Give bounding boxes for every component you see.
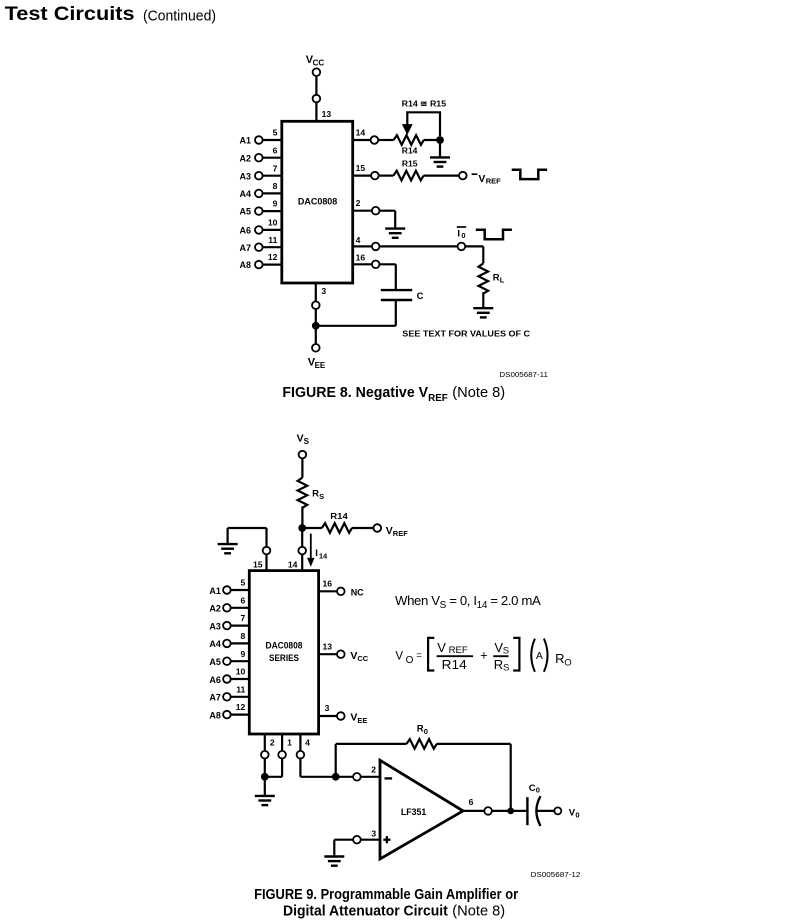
wire <box>263 229 282 231</box>
svg-text:9: 9 <box>241 649 246 659</box>
svg-text:(Note 8): (Note 8) <box>452 904 505 920</box>
junction output node <box>507 808 514 815</box>
svg-text:(Note 8): (Note 8) <box>452 385 505 401</box>
svg-text:6: 6 <box>273 145 278 155</box>
svg-text:15: 15 <box>253 560 263 570</box>
svg-text:V: V <box>437 640 446 655</box>
wire pin 3 <box>315 283 317 301</box>
wire <box>265 528 267 547</box>
resistor RL <box>479 263 489 293</box>
svg-text:V: V <box>350 650 357 662</box>
terminal A5 <box>223 657 231 665</box>
svg-text:6: 6 <box>469 797 474 807</box>
wire <box>395 300 397 326</box>
wire <box>299 758 301 776</box>
node -VREF label <box>472 173 478 175</box>
svg-text:0: 0 <box>575 810 579 819</box>
terminal op-amp pin 3 <box>353 836 361 844</box>
svg-text:A1: A1 <box>239 136 251 146</box>
node VEE label <box>308 357 326 371</box>
svg-text:C: C <box>417 291 424 302</box>
svg-text:4: 4 <box>356 235 361 245</box>
svg-text:12: 12 <box>236 702 246 712</box>
wire <box>264 777 266 796</box>
ground <box>430 157 450 166</box>
resistor R0 <box>407 739 437 749</box>
terminal op-amp pin 2 <box>353 773 361 781</box>
svg-text:SERIES: SERIES <box>269 653 299 663</box>
terminal A2 <box>223 604 231 612</box>
svg-text:CC: CC <box>313 59 325 68</box>
resistor R15 <box>393 171 423 181</box>
terminal VCC <box>313 68 321 76</box>
svg-text:V: V <box>386 525 393 537</box>
wire <box>263 175 282 177</box>
svg-text:NC: NC <box>351 587 364 597</box>
capacitor C <box>381 290 412 300</box>
terminal A3 <box>255 172 263 180</box>
junction <box>436 136 444 144</box>
svg-text:=: = <box>416 650 422 661</box>
wire <box>424 175 460 177</box>
wire <box>263 192 282 194</box>
svg-text:5: 5 <box>241 578 246 588</box>
svg-text:DS005687-11: DS005687-11 <box>499 370 548 379</box>
terminal pin 16 <box>372 261 380 269</box>
svg-text:EE: EE <box>357 716 367 725</box>
svg-text:R: R <box>493 272 500 283</box>
svg-text:FIGURE 8. Negative V: FIGURE 8. Negative V <box>282 385 428 401</box>
wire <box>333 840 335 856</box>
wire <box>265 776 282 778</box>
wire <box>352 527 374 529</box>
svg-text:S: S <box>503 646 509 657</box>
svg-text:A1: A1 <box>209 586 221 596</box>
wire <box>315 76 317 95</box>
wire <box>336 776 354 778</box>
op-amp U3 LF351 <box>380 760 463 859</box>
svg-text:16: 16 <box>356 252 366 262</box>
wire pin 1 <box>281 734 283 751</box>
svg-text:R14: R14 <box>330 511 348 521</box>
terminal pin 6 <box>484 807 492 815</box>
wire <box>281 758 283 776</box>
svg-text:A2: A2 <box>209 604 221 614</box>
svg-text:8: 8 <box>241 631 246 641</box>
terminal pin 4 <box>297 751 305 759</box>
svg-text:S: S <box>304 437 310 446</box>
terminal A4 <box>255 190 263 198</box>
svg-text:8: 8 <box>273 181 278 191</box>
svg-text:14: 14 <box>319 552 328 561</box>
terminal pin 2 <box>261 751 269 759</box>
wire <box>380 245 458 247</box>
svg-text:2: 2 <box>371 764 376 774</box>
wire <box>482 246 484 263</box>
terminal pin 15 <box>263 547 271 555</box>
svg-text:0: 0 <box>536 786 540 795</box>
wire <box>395 264 397 290</box>
svg-text:V: V <box>297 433 304 445</box>
junction node 14 <box>298 524 306 532</box>
svg-text:9: 9 <box>273 199 278 209</box>
terminal A7 <box>223 693 231 701</box>
svg-text:+: + <box>480 648 487 662</box>
terminal pin 3 <box>337 712 345 720</box>
wire <box>301 506 303 528</box>
svg-text:A8: A8 <box>209 710 221 720</box>
svg-text:S: S <box>503 663 509 674</box>
svg-text:2: 2 <box>270 738 275 748</box>
wire <box>380 210 396 212</box>
ground <box>385 229 405 238</box>
svg-text:DAC0808: DAC0808 <box>298 196 337 207</box>
wiper arm of R14 <box>407 112 440 136</box>
wire <box>315 309 317 326</box>
resistor R14 <box>322 523 352 533</box>
wire <box>300 776 335 778</box>
svg-text:2: 2 <box>356 198 361 208</box>
wire <box>319 653 338 655</box>
svg-text:Test Circuits: Test Circuits <box>5 3 135 25</box>
junction <box>261 773 269 781</box>
caption Figure 8 <box>282 385 505 404</box>
wire <box>265 554 267 570</box>
svg-text:REF: REF <box>428 392 448 404</box>
waveform at I0 (negative pulse) <box>476 230 512 239</box>
terminal V0 <box>554 807 561 814</box>
equation: VO = [VREF/R14 + VS/RS](A)RO <box>395 638 571 674</box>
svg-text:16: 16 <box>323 579 333 589</box>
svg-text:14: 14 <box>356 127 366 137</box>
wire <box>424 139 440 141</box>
terminal A2 <box>255 154 263 162</box>
svg-text:R: R <box>312 489 319 500</box>
terminal A5 <box>255 207 263 215</box>
wire <box>319 715 338 717</box>
wire <box>380 263 396 265</box>
svg-text:REF: REF <box>486 177 501 186</box>
wire <box>231 607 250 609</box>
wire <box>361 776 380 778</box>
svg-text:3: 3 <box>371 828 376 838</box>
ground <box>255 796 275 805</box>
terminal pin 16 <box>337 588 345 596</box>
wire <box>316 325 396 327</box>
ground <box>324 857 344 866</box>
wire <box>301 554 303 570</box>
IC U1 DAC0808 <box>282 121 353 283</box>
wire <box>231 696 250 698</box>
terminal pin 13 <box>337 650 345 658</box>
svg-text:A8: A8 <box>239 260 251 270</box>
node VS label <box>297 433 310 446</box>
wire <box>263 139 282 141</box>
svg-text:R: R <box>555 651 564 666</box>
wire <box>437 743 511 745</box>
svg-text:A4: A4 <box>239 189 251 199</box>
terminal A6 <box>255 226 263 234</box>
svg-text:REF: REF <box>393 529 408 538</box>
junction (summing node) <box>332 773 340 781</box>
wire <box>319 590 338 592</box>
svg-text:O: O <box>564 657 571 668</box>
wire <box>336 743 407 745</box>
svg-text:DS005687-12: DS005687-12 <box>531 870 581 879</box>
wire <box>227 528 229 544</box>
svg-text:A5: A5 <box>239 207 251 217</box>
wire <box>263 264 282 266</box>
caption Figure 9 line 2 <box>283 904 505 920</box>
terminal pin 14 <box>298 547 306 555</box>
svg-text:A5: A5 <box>209 657 221 667</box>
wire <box>378 139 393 141</box>
svg-text:11: 11 <box>236 684 245 694</box>
label RS <box>312 489 324 501</box>
terminal pin 2 <box>372 207 380 215</box>
wire <box>353 139 371 141</box>
label R0 <box>417 724 428 736</box>
wire <box>231 660 250 662</box>
svg-text:A4: A4 <box>209 639 221 649</box>
svg-text:FIGURE 9. Programmable Gain Am: FIGURE 9. Programmable Gain Amplifier or <box>254 887 518 903</box>
terminal pin 14 <box>371 136 379 144</box>
wire <box>537 810 555 812</box>
terminal A4 <box>223 640 231 648</box>
svg-text:S: S <box>319 492 324 501</box>
svg-text:A2: A2 <box>239 153 251 163</box>
wire <box>353 210 372 212</box>
label I14 <box>315 548 328 561</box>
svg-text:10: 10 <box>268 218 278 228</box>
svg-text:O: O <box>406 655 414 666</box>
svg-text:5: 5 <box>273 128 278 138</box>
node VCC label <box>350 650 368 663</box>
ground <box>218 544 238 553</box>
svg-text:12: 12 <box>268 252 278 262</box>
svg-text:A7: A7 <box>209 693 221 703</box>
wire <box>315 102 317 121</box>
svg-text:R: R <box>494 657 503 672</box>
wire <box>231 678 250 680</box>
wire <box>231 624 250 626</box>
wire <box>465 245 483 247</box>
svg-text:I: I <box>457 229 460 240</box>
label RL <box>493 272 505 284</box>
wire <box>492 810 511 812</box>
svg-text:11: 11 <box>268 235 277 245</box>
wire <box>439 140 441 157</box>
svg-text:DAC0808: DAC0808 <box>266 640 303 650</box>
wire <box>353 175 372 177</box>
wire <box>361 839 380 841</box>
svg-text:R: R <box>417 724 424 735</box>
svg-text:6: 6 <box>241 595 246 605</box>
svg-text:V: V <box>350 712 357 724</box>
terminal (VCC tap) <box>313 95 321 103</box>
svg-text:R14: R14 <box>442 657 467 672</box>
wire pin 2 <box>264 734 266 751</box>
svg-text:10: 10 <box>236 667 246 677</box>
svg-text:R15: R15 <box>402 159 418 169</box>
wire (pin 15 to ground) <box>228 527 267 529</box>
svg-text:V: V <box>395 651 403 663</box>
svg-text:(Continued): (Continued) <box>143 7 216 24</box>
svg-text:13: 13 <box>323 641 333 651</box>
ground <box>473 308 493 317</box>
IC U2 DAC0808 SERIES <box>249 571 318 734</box>
svg-text:A6: A6 <box>209 675 221 685</box>
wire <box>379 175 394 177</box>
svg-text:REF: REF <box>449 645 468 656</box>
node I0 label (I-bar sub 0) <box>457 226 466 228</box>
terminal pin 4 <box>372 243 380 251</box>
svg-text:14: 14 <box>288 560 298 570</box>
terminal A7 <box>255 243 263 251</box>
terminal -VREF <box>459 172 467 180</box>
svg-text:R14: R14 <box>402 146 418 156</box>
terminal VS <box>299 451 307 459</box>
terminal A3 <box>223 622 231 630</box>
svg-text:LF351: LF351 <box>401 807 426 817</box>
wire <box>482 292 484 308</box>
wire <box>231 713 250 715</box>
wire <box>394 211 396 228</box>
wire <box>231 589 250 591</box>
terminal pin 15 <box>371 172 379 180</box>
terminal pin 3 <box>312 301 320 309</box>
svg-text:I: I <box>315 548 318 559</box>
capacitor C0 <box>526 797 528 825</box>
svg-text:SEE TEXT FOR VALUES OF C: SEE TEXT FOR VALUES OF C <box>402 328 530 338</box>
node VEE label <box>350 712 367 725</box>
wire <box>510 744 512 811</box>
svg-text:EE: EE <box>315 361 326 370</box>
terminal A1 <box>255 136 263 144</box>
svg-text:4: 4 <box>305 738 310 748</box>
terminal I0 output <box>458 243 466 251</box>
terminal A8 <box>255 261 263 269</box>
svg-text:CC: CC <box>357 654 368 663</box>
svg-text:A6: A6 <box>239 226 251 236</box>
label C0 <box>529 783 540 795</box>
svg-text:R14 ≅ R15: R14 ≅ R15 <box>402 98 447 108</box>
node VREF label <box>386 525 409 538</box>
non-inverting input marker + <box>383 836 390 843</box>
wire <box>353 245 372 247</box>
terminal A1 <box>223 586 231 594</box>
svg-text:When VS = 0, I14 = 2.0 mA: When VS = 0, I14 = 2.0 mA <box>395 593 541 611</box>
terminal VREF <box>374 524 382 532</box>
waveform at -VREF (negative pulse) <box>512 170 547 179</box>
svg-text:A: A <box>536 650 543 662</box>
svg-text:A7: A7 <box>239 243 251 253</box>
svg-text:15: 15 <box>356 163 366 173</box>
terminal A8 <box>223 711 231 719</box>
wire <box>302 527 322 529</box>
wire <box>334 839 353 841</box>
wire <box>353 263 372 265</box>
resistor RS <box>298 478 308 508</box>
node VCC label <box>306 54 325 67</box>
terminal VEE <box>312 344 320 352</box>
wire <box>511 810 528 812</box>
svg-text:13: 13 <box>322 109 332 119</box>
terminal A6 <box>223 675 231 683</box>
inverting input marker - <box>385 777 393 779</box>
wire <box>301 528 303 547</box>
wire <box>263 157 282 159</box>
svg-text:3: 3 <box>325 703 330 713</box>
wire <box>301 458 303 477</box>
svg-text:L: L <box>500 276 505 285</box>
potentiometer R14 <box>394 135 424 145</box>
current arrow I14 <box>310 534 312 559</box>
wire pin 4 <box>299 734 301 751</box>
node V0 label <box>569 807 580 819</box>
wire <box>264 758 266 776</box>
svg-text:7: 7 <box>241 613 246 623</box>
svg-text:Digital Attenuator Circuit: Digital Attenuator Circuit <box>283 904 448 920</box>
svg-text:0: 0 <box>424 727 428 736</box>
svg-text:C: C <box>529 783 536 794</box>
svg-text:A3: A3 <box>239 171 251 181</box>
svg-text:3: 3 <box>321 286 326 296</box>
wire <box>315 326 317 344</box>
junction VEE node <box>312 322 320 330</box>
svg-text:1: 1 <box>287 738 292 748</box>
svg-text:A3: A3 <box>209 621 221 631</box>
wire <box>263 246 282 248</box>
svg-text:7: 7 <box>273 163 278 173</box>
svg-text:0: 0 <box>461 231 465 240</box>
wire feedback <box>335 744 337 777</box>
wire output <box>463 810 484 812</box>
svg-text:V: V <box>478 173 485 185</box>
terminal pin 1 <box>278 751 286 759</box>
wire <box>231 642 250 644</box>
wire <box>263 210 282 212</box>
